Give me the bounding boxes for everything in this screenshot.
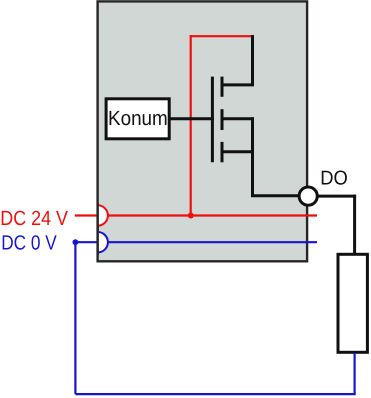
component box "Konum" xyxy=(106,99,169,139)
wire: Konum output to gate xyxy=(169,117,214,120)
wire: DO terminal to load (horizontal) xyxy=(318,195,356,198)
junction: 0V rail to return wire xyxy=(73,239,79,245)
svg-text:DC 0 V: DC 0 V xyxy=(1,232,57,255)
svg-text:DC 24 V: DC 24 V xyxy=(0,207,68,230)
wire: 0V return bottom run xyxy=(75,393,355,395)
terminal arc: DC 24 V entry xyxy=(98,205,108,225)
wire: DC 24 V rail (inside module) xyxy=(108,214,317,216)
wire: black drain feed vertical xyxy=(251,35,254,85)
wire: red +24V vertical riser xyxy=(190,35,192,215)
wire: DC 0 V rail (inside module) xyxy=(108,241,317,243)
transistor Q1: source stub xyxy=(221,150,255,153)
transistor Q1: drain stub xyxy=(221,83,255,86)
wire: DO terminal to load (vertical drop) xyxy=(353,195,356,255)
wire: module left border segment over terminal arcs xyxy=(96,203,98,255)
transistor Q1: gate bar xyxy=(211,77,214,163)
wire: load bottom to 0V return (vertical blue) xyxy=(354,353,356,394)
transistor Q1: channel segment (drain) xyxy=(221,77,224,97)
junction: red riser to 24V rail xyxy=(188,213,194,219)
enclosure: gray module box xyxy=(98,1,308,261)
wire: DC 0 V rail (junction to terminal) xyxy=(75,241,96,243)
load resistor (actuator) xyxy=(338,254,367,352)
transistor Q1: body stub xyxy=(221,117,255,120)
svg-text:DO: DO xyxy=(320,168,348,190)
terminal arc: DC 0 V entry xyxy=(98,232,108,252)
terminal DO: circle on module edge xyxy=(299,187,317,205)
wire: red +24V top feed horizontal xyxy=(190,35,254,37)
transistor Q1: channel segment (source) xyxy=(221,142,224,162)
wire: 0V return riser to junction xyxy=(74,242,76,394)
wire: output horizontal to DO terminal xyxy=(251,194,299,197)
wire: output vertical (source to DO) xyxy=(251,117,254,196)
svg-text:Konum: Konum xyxy=(108,107,168,130)
wire: DC 24 V rail (left of terminal) xyxy=(75,214,97,216)
transistor Q1: channel segment (body) xyxy=(221,109,224,130)
